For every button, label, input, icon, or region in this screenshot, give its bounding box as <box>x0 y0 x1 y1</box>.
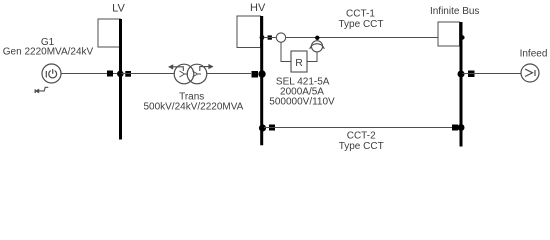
transformer winding wye left <box>180 71 189 77</box>
generator rotation arrow <box>35 87 49 93</box>
bus LV <box>119 19 122 140</box>
svg-text:Gen 2220MVA/24kV: Gen 2220MVA/24kV <box>3 46 94 57</box>
breaker square CCT-1 <box>268 35 272 39</box>
node CCT-1 at infinite bus <box>460 35 464 39</box>
wire CT to relay <box>281 42 291 61</box>
infeed source <box>521 64 539 82</box>
svg-text:CCT-1: CCT-1 <box>346 8 375 19</box>
node PT tap on CCT-1 <box>315 36 319 40</box>
bus HV terminal box <box>237 16 261 48</box>
svg-text:R: R <box>295 57 303 69</box>
bus HV <box>260 16 263 145</box>
svg-text:LV: LV <box>112 2 125 14</box>
node on HV bus CCT-1 <box>260 35 265 40</box>
wire transformer to HV bus <box>207 73 251 75</box>
wire LV bus to transformer <box>122 73 175 75</box>
PT voltage transformer <box>310 41 325 52</box>
breaker square left of LV bus <box>107 71 113 77</box>
wire CCT-1 line <box>286 37 438 39</box>
relay R SEL-421 <box>291 51 307 72</box>
svg-text:Infeed: Infeed <box>520 48 548 59</box>
generator G1 <box>42 64 61 83</box>
node on HV bus CCT-2 <box>259 124 266 131</box>
transformer winding wye right <box>193 71 202 77</box>
svg-text:Type CCT: Type CCT <box>338 19 383 30</box>
svg-text:500kV/24kV/2220MVA: 500kV/24kV/2220MVA <box>143 102 243 113</box>
node on LV bus <box>117 71 124 78</box>
bus Infinite <box>460 22 463 147</box>
transformer tap arrow right <box>200 64 214 71</box>
node on infinite bus CCT-2 <box>458 124 465 131</box>
breaker square at HV bus <box>252 71 259 78</box>
svg-text:500000V/110V: 500000V/110V <box>269 96 335 107</box>
svg-text:Infinite Bus: Infinite Bus <box>430 6 479 17</box>
bus LV terminal box <box>98 19 121 47</box>
breaker square CCT-2 right <box>452 125 458 131</box>
breaker square infeed <box>468 71 475 78</box>
wire infinite bus to infeed source <box>463 73 522 75</box>
CT current transformer <box>276 33 285 42</box>
wire PT to relay <box>308 52 318 62</box>
node on infinite bus infeed <box>458 71 465 78</box>
breaker square CCT-2 left <box>269 125 275 131</box>
breaker square right of LV bus <box>125 71 131 77</box>
wire HV bus to CT <box>264 37 277 39</box>
transformer tap arrow left <box>168 64 183 71</box>
svg-text:CCT-2: CCT-2 <box>347 130 376 141</box>
bus Infinite terminal box <box>438 22 460 46</box>
wire generator to LV bus <box>61 73 120 75</box>
transformer T1 <box>174 64 207 84</box>
node on HV bus at transformer <box>258 70 265 77</box>
wire CCT-2 line <box>264 127 460 129</box>
svg-text:Type CCT: Type CCT <box>339 141 384 152</box>
svg-text:HV: HV <box>250 2 266 14</box>
